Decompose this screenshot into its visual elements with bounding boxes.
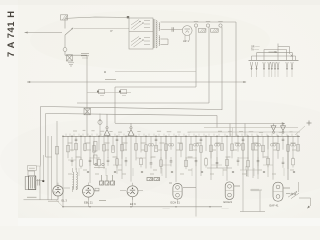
grid cap V6 — [283, 187, 290, 189]
grid cap V5 — [234, 185, 240, 187]
speaker bracket — [25, 177, 28, 190]
transformer TR1 primary taps — [131, 20, 150, 31]
wire antenna diag — [295, 126, 305, 135]
wire mid drop x230 — [229, 124, 231, 137]
capacitor cluster C-m — [147, 178, 160, 181]
wire bottom main — [63, 206, 222, 208]
connector bus bar — [249, 59, 299, 61]
wire HT top — [161, 21, 237, 23]
transformer TR1 mid divider — [129, 31, 153, 33]
tiny value labels — [68, 143, 296, 157]
trimmer bits — [94, 163, 105, 167]
wire v40 — [39, 166, 41, 200]
capacitor C-rect — [172, 27, 174, 31]
wire v42 — [41, 107, 52, 166]
svg-text:ECH 21: ECH 21 — [171, 201, 181, 205]
wire arrow feed — [269, 51, 278, 53]
fuse F1 — [61, 15, 68, 20]
label ECH 21 b — [224, 200, 233, 204]
electrolytic C-a — [198, 29, 206, 33]
resistor R-v57 — [55, 147, 58, 155]
squiggle component — [98, 114, 102, 137]
terminal E3 — [219, 24, 222, 110]
bus component drops — [63, 136, 298, 216]
label EF 9 — [130, 202, 136, 206]
bus junction dots — [62, 136, 299, 138]
letter X marker — [291, 54, 294, 58]
speaker cap bars — [38, 179, 40, 186]
label under coil — [48, 200, 59, 202]
trimmer bits — [94, 163, 105, 167]
transformer TR1 main winding — [156, 21, 157, 48]
wire mid h127 — [204, 127, 298, 129]
indicator T4 — [281, 124, 286, 134]
speaker label — [27, 196, 37, 198]
wire mid v115 — [114, 87, 116, 123]
wire v57 lower — [56, 136, 58, 185]
grid cap V4 — [169, 183, 196, 188]
wire to rectifier — [161, 29, 183, 31]
coil squiggle right — [246, 166, 247, 176]
junction dot speaker — [42, 180, 44, 182]
wire switch drop — [64, 35, 66, 48]
dense band links — [68, 158, 273, 165]
grid cap V4 — [169, 183, 196, 188]
grid cap V5 — [234, 185, 240, 187]
svg-text:EF 9: EF 9 — [130, 202, 136, 206]
wire mains top — [65, 17, 129, 18]
connector route 3 — [264, 50, 287, 61]
transformer TR1 box — [127, 16, 153, 49]
capacitor cluster C-k — [99, 175, 115, 201]
wire conn v278 — [277, 44, 279, 61]
tube V6 EBF envelope — [273, 182, 283, 201]
terminal plug P1 — [63, 48, 67, 52]
wire r-row — [87, 92, 131, 94]
transformer TR1 secondary taps — [131, 37, 150, 48]
svg-text:AZ 1: AZ 1 — [183, 39, 189, 43]
tube V4 ECH21 envelope — [173, 184, 182, 204]
wire v43 — [42, 155, 44, 181]
wire v48 — [47, 136, 49, 200]
wire mid drop x217 — [216, 116, 218, 128]
label EL 3 — [62, 198, 68, 202]
switch S1 — [65, 28, 73, 36]
labels in band — [70, 150, 296, 170]
wire to filter box — [65, 51, 87, 55]
bus line main — [63, 135, 300, 137]
wire v245 — [244, 124, 246, 137]
label box link — [36, 165, 41, 167]
wire v51 — [51, 136, 53, 200]
transformer TR1 sec winding lower — [159, 36, 160, 46]
wire mid h103 — [77, 102, 209, 104]
wire mid h87 — [115, 86, 196, 88]
speaker transformer box — [29, 176, 36, 190]
label EBL 21 — [84, 201, 93, 205]
switch box SW2 — [84, 108, 90, 115]
pot P-b — [119, 90, 127, 96]
wire tick x231 — [232, 128, 234, 137]
svg-text:GR ——: GR —— — [251, 46, 260, 48]
wire heater stub a — [161, 38, 169, 40]
ground hatch — [68, 63, 74, 66]
svg-text:ECH21: ECH21 — [224, 200, 233, 204]
indicator T3 — [271, 124, 276, 134]
label EBF 11 — [270, 204, 279, 208]
capacitor cluster C-m — [147, 178, 160, 181]
labels above bus — [73, 130, 293, 132]
rectifier tube AZ1 — [182, 26, 192, 41]
wire spk a — [36, 180, 44, 182]
tube V5 ECH21b envelope — [225, 182, 234, 200]
label above b-plus — [105, 79, 116, 81]
indicator T2 — [128, 123, 134, 136]
wire switch feed — [74, 28, 130, 30]
transformer TR1 core — [154, 19, 155, 48]
texture row y172 — [68, 168, 295, 176]
speaker magnet top — [28, 171, 35, 176]
wire right drop x236 — [235, 22, 237, 136]
electrolytic C-b — [211, 29, 219, 33]
label osc section — [163, 207, 171, 210]
svg-text:7 A 741 H: 7 A 741 H — [6, 10, 16, 57]
connector route 2 — [257, 53, 293, 60]
svg-text:EAF 41: EAF 41 — [270, 204, 279, 208]
label b2 — [222, 207, 230, 210]
tube V1 EL3 envelope — [53, 183, 63, 200]
tall resistor left — [94, 142, 97, 165]
wire diag arrow — [299, 198, 311, 209]
label ECH 21 — [171, 201, 181, 205]
wire h190r — [250, 189, 262, 191]
capacitor block C-net — [67, 55, 73, 61]
wire mains lead — [25, 32, 63, 34]
variable cap marks — [286, 191, 299, 199]
pot P-a — [97, 90, 105, 96]
wire h200 — [24, 199, 59, 201]
wire filter drop — [86, 55, 88, 136]
antenna plus mark — [307, 121, 312, 126]
capacitor cluster C-k — [99, 175, 115, 201]
wire mid h110 — [41, 107, 223, 110]
component row 2 — [71, 157, 295, 169]
letter P marker — [111, 29, 113, 33]
label box left — [28, 166, 37, 171]
wire fuse drop — [64, 20, 66, 29]
wire conn top route — [278, 47, 290, 55]
wire B+ long — [27, 81, 247, 83]
svg-text:P: P — [111, 29, 113, 33]
tube V2 EBL21 envelope — [83, 183, 95, 207]
labels above terminals — [194, 20, 223, 22]
link y168 right — [207, 168, 258, 170]
wire mid h123 — [115, 122, 285, 124]
tube V3 EF9 envelope — [127, 183, 138, 207]
indicator T1 — [104, 114, 110, 135]
component box right of V2 — [95, 188, 99, 191]
svg-text:———: ——— — [222, 207, 230, 210]
wire h200 to bottom — [56, 200, 63, 207]
connector pins with arrows — [250, 62, 293, 77]
terminal E1 — [194, 24, 197, 87]
resistor row 1 — [67, 143, 300, 152]
wire v260 — [259, 190, 261, 212]
coil L-if — [73, 168, 78, 192]
label legend lines — [251, 46, 260, 51]
wire mid h71 — [104, 71, 196, 73]
wire heater stub b — [161, 39, 169, 45]
deep drops — [122, 136, 288, 211]
wire right v298 — [298, 182, 300, 192]
grid cap V6 — [283, 187, 290, 189]
wire mid h116 — [46, 114, 217, 116]
wire v57 upper — [56, 121, 58, 136]
bottom junction dots — [62, 206, 210, 207]
tube link wires2 — [63, 188, 143, 191]
component dashes — [81, 54, 89, 59]
wire bottom right — [240, 211, 265, 213]
svg-text:EL 3: EL 3 — [62, 198, 68, 202]
bus line upper — [190, 131, 300, 133]
label AZ 1 — [183, 39, 189, 43]
terminal E2 — [206, 24, 209, 103]
svg-text:———: ——— — [163, 207, 171, 210]
svg-text:TA ——: TA —— — [251, 48, 260, 51]
connector route 1 — [252, 56, 296, 60]
transformer TR1 sec winding upper — [159, 23, 160, 31]
caps under bus — [75, 139, 285, 140]
paired trimmer circles — [148, 144, 295, 147]
svg-text:EBL 21: EBL 21 — [84, 201, 93, 205]
title text 7 A 741 H (rotated) — [6, 10, 16, 57]
bus up ticks — [66, 134, 297, 137]
